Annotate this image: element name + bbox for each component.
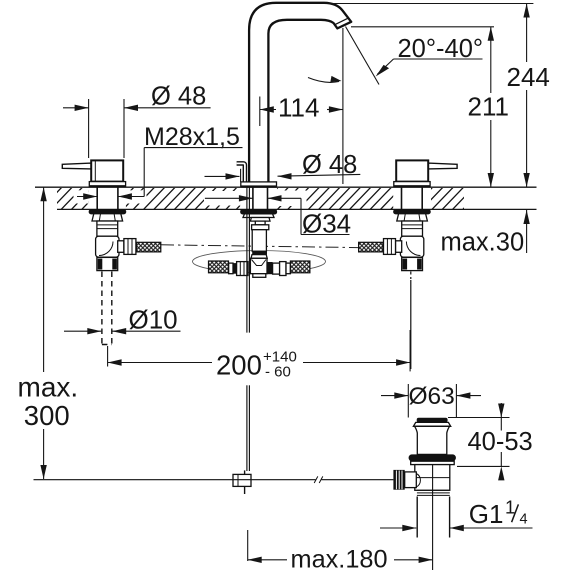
svg-text:G1: G1 [469,499,504,529]
dimension: 114 [260,28,343,184]
dimension: 244 [526,4,528,188]
dimension: max.30 [526,210,528,253]
svg-text:M28x1,5: M28x1,5 [144,123,240,151]
dimension: Ø63 [381,384,481,418]
spout angle leader 20-40 [308,27,483,85]
svg-text:Ø 48: Ø 48 [302,151,357,179]
dimension: 200 +140/-60 [108,330,411,371]
spout base flange [241,182,277,188]
svg-text:244: 244 [507,62,550,92]
svg-text:114: 114 [278,93,319,123]
left supply hose (dashed) [102,272,112,345]
right handle and valve (mirror of left) [359,160,458,270]
left flex hose braid [137,242,161,252]
svg-text:1: 1 [505,497,515,518]
dimension: 40-53 [448,403,510,466]
dimension: M28x1,5 [77,148,243,197]
center tee unit below counter [229,210,291,278]
svg-text:Ø34: Ø34 [302,209,351,239]
svg-text:Ø10: Ø10 [129,305,178,335]
drain pop-up waste assembly [393,418,456,538]
svg-text:4: 4 [520,511,528,527]
horizontal pop-up rod [34,476,394,483]
svg-text:40-53: 40-53 [468,428,533,456]
left handle [62,160,125,187]
svg-text:300: 300 [24,400,70,431]
hose axis centerline [161,245,359,248]
dimension: 211 [490,27,492,187]
dimension: G1 1/4 [380,527,533,529]
svg-text:200: 200 [216,350,262,381]
drain centerline [432,465,434,570]
svg-text:211: 211 [468,92,509,122]
right supply line [410,272,412,370]
basin rim ellipse [193,251,326,273]
hatch clearance boxes [74,188,432,210]
rod clamp [233,470,251,494]
counter bottom line [57,208,537,210]
left valve shank in counter [97,188,118,210]
svg-text:max.30: max.30 [441,229,525,257]
center tee braided hoses [209,261,229,273]
pop-up lift rod [237,163,245,182]
svg-text:max.180: max.180 [291,546,388,570]
svg-text:max.: max. [18,372,79,403]
dimension: max.300 [43,187,45,479]
svg-text:20°-40°: 20°-40° [398,35,484,63]
center shank in counter [253,188,268,210]
countertop hatch [40,186,485,210]
left valve below counter [89,210,136,271]
dimension: Ø10 [64,330,181,332]
dimension: Ø48 center [205,174,361,176]
dimension: max.180 [248,530,433,561]
dimension: Ø34 leader [205,198,350,234]
dimension: Ø48 left [63,99,211,158]
counter top line [35,186,537,188]
svg-text:Ø 48: Ø 48 [151,83,206,111]
spout [249,3,351,186]
top reference lines [330,3,533,5]
pop-up rod vertical [247,186,250,471]
svg-text:Ø63: Ø63 [409,383,455,410]
svg-text:- 60: - 60 [265,364,291,381]
